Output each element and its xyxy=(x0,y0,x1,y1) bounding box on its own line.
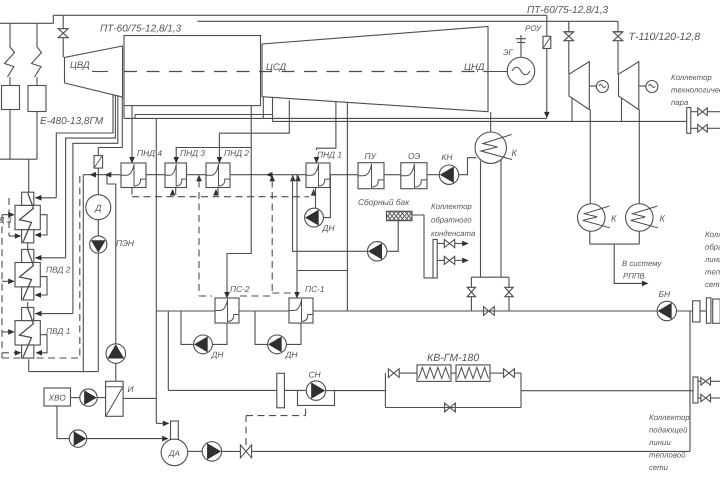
svg-text:ПВД 1: ПВД 1 xyxy=(46,326,70,336)
wire control valve stem v2 xyxy=(305,405,307,415)
wire main steam header upper xyxy=(53,14,547,16)
svg-text:Т-110/120-12,8: Т-110/120-12,8 xyxy=(629,31,701,43)
wire PND3 steam xyxy=(176,106,251,159)
wire bottom return line xyxy=(252,450,690,452)
wire PVD2-PVD1 link xyxy=(27,302,29,308)
valve T2 stem xyxy=(617,21,619,31)
wire makeup to DA xyxy=(156,422,162,424)
wire dashed drain h3 xyxy=(2,280,11,282)
wire HP inlet xyxy=(62,38,64,58)
vacuum deaerator DA neck xyxy=(171,421,179,441)
wire BN discharge xyxy=(677,310,693,312)
wire dashed drain x272 jog left xyxy=(240,295,272,297)
wire pump to valve xyxy=(222,450,241,452)
valve KOK 1 xyxy=(444,240,454,248)
heater PVD2 xyxy=(15,263,40,287)
svg-text:ОЭ: ОЭ xyxy=(408,151,421,161)
wire D to PEN xyxy=(97,220,99,236)
wire dashed drain h1 xyxy=(9,235,17,237)
wire bleed A to PVD3 xyxy=(35,197,56,199)
boiler B2 downcomer xyxy=(36,112,38,160)
valve supply 2 xyxy=(701,394,711,402)
wire supply branch2b xyxy=(711,397,720,399)
wire DA to pump xyxy=(188,450,203,452)
svg-text:ПНД 1: ПНД 1 xyxy=(317,149,342,159)
valve tech 2 xyxy=(698,125,708,133)
heater PVD2 drain loop xyxy=(37,277,47,295)
svg-text:ХВО: ХВО xyxy=(48,394,67,403)
wire KVGM a xyxy=(399,372,417,374)
generator excitation lead xyxy=(520,35,522,57)
wire supply branch1b xyxy=(711,380,720,382)
valve HP stop valve xyxy=(58,29,68,38)
heater PS-2 xyxy=(215,298,239,323)
wire I outlet xyxy=(123,397,156,399)
arrow condensate mid xyxy=(266,172,273,178)
arrow condensate to D 2 xyxy=(105,172,112,178)
svg-text:ДН: ДН xyxy=(211,350,225,360)
wire KOK branch 1b xyxy=(455,243,463,245)
arrow XVO2 into DA xyxy=(162,436,169,442)
arrow drain h5 xyxy=(15,350,21,356)
wire dashed drain x272 xyxy=(271,181,273,294)
wire KVGM c xyxy=(514,372,521,374)
box XVO xyxy=(44,388,71,406)
wire RPPV right lower xyxy=(508,297,510,311)
wire T1 inlet xyxy=(568,41,570,74)
wire CSD bleed xyxy=(262,97,264,118)
arrow ROU into line xyxy=(544,112,550,119)
pump tank return xyxy=(368,242,387,261)
wire RPPV drop right xyxy=(508,277,510,287)
arrow PVD3 drain xyxy=(35,232,42,238)
arrow cascade into PND2 xyxy=(213,189,219,196)
arrow condensate to D 1 xyxy=(90,172,97,178)
wire sub-header drop right xyxy=(272,115,274,122)
svg-text:ДН: ДН xyxy=(285,350,299,360)
arrow cascade into PND1 xyxy=(311,189,317,196)
generator excitation tick 2 xyxy=(517,42,525,44)
wire I-feed lower xyxy=(115,363,117,381)
svg-text:ПС-1: ПС-1 xyxy=(305,284,325,294)
wire dashed drain v1 xyxy=(8,198,10,236)
arrow into PND1 xyxy=(314,157,320,164)
heater PS-1 xyxy=(289,298,313,323)
wire PS1 steam tail xyxy=(346,271,348,312)
valve T2 tick xyxy=(614,31,623,33)
wire bleed C to PVD1 xyxy=(35,313,73,315)
arrow drain h2 xyxy=(8,212,15,218)
boiler B1 riser xyxy=(9,23,11,47)
boiler B2 riser xyxy=(36,23,38,47)
wire CVD bleed C xyxy=(73,96,118,314)
arrow PVD2 drain xyxy=(35,292,42,298)
control valve after DA xyxy=(240,445,251,458)
wire dashed drain v2 xyxy=(1,215,3,358)
svg-text:ПУ: ПУ xyxy=(365,151,378,161)
wire drain return solid xyxy=(82,175,84,372)
pump BN xyxy=(657,301,676,320)
arrow into PND4 xyxy=(129,157,135,164)
arrow KOK 1 xyxy=(462,241,469,247)
wire dashed drain x199 jog xyxy=(199,295,212,297)
boiler B1 riser lower xyxy=(9,77,11,86)
wire K1 drain xyxy=(589,231,591,244)
boiler B2 riser lower xyxy=(36,77,38,86)
wire drain return dashed xyxy=(79,176,81,358)
svg-text:И: И xyxy=(128,384,134,394)
pump XVO2 xyxy=(69,430,86,447)
arrow drain h4 xyxy=(8,329,15,335)
boiler KVGM 2 xyxy=(456,365,490,382)
wire KOK branch 2b xyxy=(455,259,463,261)
wire T2 inlet xyxy=(617,41,619,74)
svg-text:Коллектор: Коллектор xyxy=(671,73,712,82)
svg-text:ДА: ДА xyxy=(168,449,180,458)
wire feedwater to boilers xyxy=(0,158,37,160)
pump XVO1 xyxy=(80,389,97,406)
wire tank bottom xyxy=(387,221,398,252)
wire cascade PND1 riser xyxy=(313,189,315,197)
boiler B2 break symbol xyxy=(32,47,42,77)
shaft axis dashed xyxy=(124,71,488,73)
wire main steam header left xyxy=(0,22,53,24)
arrow drain h1 xyxy=(15,233,21,239)
generator T1 circle xyxy=(596,81,608,93)
wire extraction header 1 xyxy=(124,117,547,119)
wire PS1 drain xyxy=(286,323,301,344)
wire PS2 steam xyxy=(227,148,251,294)
valve T1 stem xyxy=(568,21,570,31)
wire KVGM b xyxy=(490,372,504,374)
wire supply line xyxy=(521,390,693,392)
svg-text:Сборный бак: Сборный бак xyxy=(358,197,410,207)
apparatus PU xyxy=(358,163,384,189)
svg-text:ПВД 2: ПВД 2 xyxy=(46,265,71,275)
generator T1 lead xyxy=(589,85,597,87)
svg-text:ПТ-60/75-12,8/1,3: ПТ-60/75-12,8/1,3 xyxy=(527,5,609,16)
arrow drain h3 xyxy=(8,279,15,285)
heater PND3 xyxy=(165,163,187,188)
wire K2 drain xyxy=(638,231,640,244)
wire PS1 feed drop xyxy=(296,175,298,294)
wire control valve stem h xyxy=(246,415,306,417)
shaft to generator xyxy=(488,71,507,73)
wire cascade main xyxy=(132,196,309,198)
wire dashed drain h5 xyxy=(2,352,17,354)
wire DN PS2 discharge xyxy=(181,311,194,344)
wire condensate to I branch xyxy=(107,175,116,345)
svg-text:СН: СН xyxy=(309,370,322,380)
wire KVGM link xyxy=(451,372,456,374)
wire dashed drain h4 xyxy=(2,331,11,333)
wire SN discharge xyxy=(326,390,386,392)
wire tank outlet right xyxy=(412,215,434,278)
wire condenser drain left xyxy=(480,161,482,277)
wire PVD3 outlet riser xyxy=(28,159,30,192)
arrow PVD1 drain xyxy=(36,350,43,356)
wire T1 exhaust a xyxy=(571,98,573,121)
svg-text:К: К xyxy=(512,148,518,158)
wire pump to I xyxy=(97,397,105,399)
valve KOK 2 xyxy=(444,256,454,264)
collector KOK bar xyxy=(433,239,437,278)
heater PVD1 drain loop xyxy=(38,335,47,353)
wire tech branch1b xyxy=(707,111,720,113)
wire supply branch2 xyxy=(698,397,701,399)
wire crossover left drop xyxy=(123,106,125,119)
turbine T1 body xyxy=(569,62,589,110)
wire PVD3-PVD2 link xyxy=(27,243,29,250)
generator excitation tick 1 xyxy=(516,38,526,40)
wire PS2 drain xyxy=(212,323,227,344)
wire heating main line xyxy=(156,310,657,312)
generator T2 sine xyxy=(649,85,656,88)
arrow into PVD3 xyxy=(35,195,42,201)
ROU reducing valve body xyxy=(543,36,551,48)
arrow into PND3 xyxy=(173,157,179,164)
condenser K coil xyxy=(481,135,512,160)
svg-text:тепловой: тепловой xyxy=(705,268,720,277)
svg-text:ПЭН: ПЭН xyxy=(116,238,135,248)
wire KOK branch 2 xyxy=(437,259,444,261)
pump after DA xyxy=(202,442,221,461)
wire PND1 drain xyxy=(315,188,317,209)
heater PVD1 xyxy=(15,321,40,345)
pump DN PS1 xyxy=(268,335,287,354)
svg-text:обратной: обратной xyxy=(705,243,720,252)
svg-text:Е-480-13,8ГМ: Е-480-13,8ГМ xyxy=(40,116,104,127)
wire feed pump discharge xyxy=(29,371,99,373)
shaft axis in CVD xyxy=(92,71,108,73)
svg-text:ПТ-60/75-12,8/1,3: ПТ-60/75-12,8/1,3 xyxy=(100,24,182,35)
valve T2 xyxy=(613,32,623,41)
wire control valve stem xyxy=(245,416,247,445)
wire reducer to junction xyxy=(97,168,99,175)
svg-text:КВ-ГМ-180: КВ-ГМ-180 xyxy=(427,352,479,364)
wire dashed drain h2 xyxy=(2,214,11,216)
wire bleed B to PVD2 xyxy=(35,257,66,259)
pump SN xyxy=(306,381,325,400)
ROU drop from header xyxy=(546,15,548,36)
wire makeup down xyxy=(155,118,157,423)
pump DN at PND1 xyxy=(305,208,324,227)
wire sub-header xyxy=(135,114,273,116)
generator T2 lead xyxy=(639,85,647,87)
wire PND1 steam xyxy=(317,102,336,159)
collector supply bar xyxy=(693,377,698,403)
valve T1 xyxy=(564,32,574,41)
svg-text:РППВ: РППВ xyxy=(623,272,645,281)
reducer above D xyxy=(94,156,103,169)
wire dashed drain PND x199 xyxy=(198,181,200,297)
heater PVD3 xyxy=(15,205,40,229)
svg-text:ЦВД: ЦВД xyxy=(70,60,90,71)
wire T2 exhaust a xyxy=(621,98,623,121)
wire CVD bleed B xyxy=(66,95,116,257)
wire bleed D drop xyxy=(97,148,99,156)
svg-text:ПНД 2: ПНД 2 xyxy=(224,148,249,158)
wire CVD bleed D xyxy=(98,97,122,148)
wire K drain manifold xyxy=(590,243,640,245)
arrow KOK 2 xyxy=(462,258,469,264)
heat exchanger K1 xyxy=(578,204,606,232)
valve KVGM left xyxy=(388,369,399,378)
generator T2 circle xyxy=(646,81,658,93)
svg-text:К: К xyxy=(660,214,666,224)
ROU diagonal xyxy=(544,37,551,48)
valve RPPV left xyxy=(467,287,475,296)
svg-text:сети: сети xyxy=(705,280,720,289)
wire XVO to pump xyxy=(71,397,80,399)
turbine crossover box xyxy=(124,36,261,106)
wire PND2 steam xyxy=(219,100,289,158)
boiler B2 body xyxy=(28,86,46,112)
svg-text:сети: сети xyxy=(649,463,669,472)
filter bar SN xyxy=(277,373,285,408)
arrow into PND2 xyxy=(217,157,223,164)
heater PND2 xyxy=(206,163,230,188)
wire PEN down xyxy=(97,253,99,372)
svg-text:линии: линии xyxy=(704,255,720,264)
valve RPPV right xyxy=(505,287,513,296)
apparatus I diagonal xyxy=(106,388,122,416)
wire DN PND1 discharge xyxy=(323,175,330,218)
svg-text:ЭГ: ЭГ xyxy=(503,48,514,57)
turbine HP cylinder CVD xyxy=(65,46,123,97)
wire to RPPV system xyxy=(614,244,642,283)
collector return stub xyxy=(713,299,720,323)
wire tech branch2b xyxy=(707,127,720,129)
condenser K circle xyxy=(475,132,506,163)
wire RPPV left lower xyxy=(470,297,472,311)
heater PVD3 drain loop xyxy=(37,215,47,235)
arrow dashed drain x272 xyxy=(269,175,275,182)
arrow into PVD2 xyxy=(35,255,42,261)
svg-text:В систему: В систему xyxy=(622,259,663,268)
wire drain boundary bottom xyxy=(2,357,80,359)
wire CVD bleed A xyxy=(56,95,113,198)
wire SN suction xyxy=(168,389,276,391)
wire tank return xyxy=(293,175,368,252)
wire bars link xyxy=(700,310,706,312)
reducer diagonal xyxy=(95,156,103,167)
svg-text:технологическ: технологическ xyxy=(671,86,720,95)
boiler B1 body xyxy=(2,86,20,110)
wire main condensate line xyxy=(83,174,439,176)
svg-text:Коллектор: Коллектор xyxy=(649,413,690,422)
collector tech bar xyxy=(687,108,691,134)
pump SN bypass xyxy=(298,391,335,406)
svg-text:Коллектор: Коллектор xyxy=(705,230,720,239)
svg-text:КН: КН xyxy=(442,152,454,162)
svg-text:РОУ: РОУ xyxy=(525,24,542,33)
wire extraction header 2 xyxy=(273,120,687,122)
wire SN suction b xyxy=(284,389,306,391)
wire XVO2 to DA xyxy=(87,438,162,440)
wire KN suction xyxy=(459,158,477,175)
arrow into PVD1 xyxy=(35,311,42,317)
wire cascade PND2 drop xyxy=(217,188,219,197)
svg-text:ПНД 3: ПНД 3 xyxy=(180,148,205,158)
collector return bar1 xyxy=(693,301,700,322)
wire supply branch1 xyxy=(698,380,701,382)
wire tech branch2 xyxy=(691,127,698,129)
wire KVGM bypass xyxy=(385,407,521,409)
pump I-feed xyxy=(106,344,126,364)
wire junction to D xyxy=(97,175,99,195)
arrow condensate at PS1 drop xyxy=(295,175,301,182)
heater PND4 xyxy=(121,163,146,188)
svg-text:пара: пара xyxy=(671,98,689,107)
wire XVO bottom xyxy=(57,406,69,439)
wire PVD1 bottom drop xyxy=(28,359,30,371)
wire PND4 steam xyxy=(131,106,133,159)
valve supply 1 xyxy=(701,378,711,386)
svg-text:ПНД 4: ПНД 4 xyxy=(137,148,162,158)
valve tech 1 xyxy=(698,108,708,116)
svg-text:ПС-2: ПС-2 xyxy=(230,284,250,294)
wire header step xyxy=(52,15,54,23)
label PND1 backing xyxy=(314,150,343,159)
wire ROU down xyxy=(546,49,548,113)
svg-text:линии: линии xyxy=(648,438,671,447)
boiler B1 break symbol xyxy=(5,47,15,77)
boiler KVGM 1 xyxy=(417,365,451,382)
valve T1 tick xyxy=(564,31,573,33)
heater PND1 xyxy=(306,163,330,188)
wire return riser xyxy=(689,311,691,451)
boiler B1 downcomer xyxy=(9,110,11,160)
wire dashed drain x272 jog xyxy=(272,292,293,294)
pump PEN xyxy=(90,236,107,253)
wire CSD bleed 2 xyxy=(272,97,274,114)
wire T1 exhaust b xyxy=(589,110,591,204)
wire KVGM riser xyxy=(384,373,386,407)
wire RPPV drop left xyxy=(470,277,472,287)
deaerator D circle xyxy=(86,195,111,220)
arrow makeup into DA xyxy=(163,421,170,427)
svg-text:конденсата: конденсата xyxy=(431,229,476,238)
wire tech branch1 xyxy=(691,111,698,113)
turbine LP cylinder CSD-CND xyxy=(262,27,488,112)
pump DN PS2 xyxy=(194,335,213,354)
wire KVGM out drop xyxy=(520,373,522,407)
svg-text:Коллектор: Коллектор xyxy=(431,202,472,211)
svg-text:К: К xyxy=(611,214,617,224)
svg-text:Д: Д xyxy=(94,203,102,213)
wire KOK branch 1 xyxy=(437,243,444,245)
heat exchanger K2 xyxy=(626,204,654,232)
wire DN PS1 discharge xyxy=(255,311,268,344)
svg-text:ДН: ДН xyxy=(322,223,336,233)
svg-text:обратного: обратного xyxy=(431,216,472,225)
vacuum deaerator DA xyxy=(161,439,188,466)
arrow cascade into PND3 xyxy=(170,189,176,196)
wire heating to SN drop xyxy=(167,311,169,390)
wire main steam header lower xyxy=(198,20,619,22)
collector return bar2 xyxy=(706,298,711,323)
svg-text:БН: БН xyxy=(659,289,671,299)
arrow dashed drain x199 xyxy=(196,175,202,182)
condenser K inlet xyxy=(490,112,492,132)
arrow into PS2 xyxy=(224,292,230,299)
pump KN xyxy=(439,165,458,184)
wire cascade PND3 drop xyxy=(175,188,177,197)
apparatus OE xyxy=(401,163,427,189)
tank body xyxy=(387,211,412,220)
valve KVGM right xyxy=(504,369,515,378)
